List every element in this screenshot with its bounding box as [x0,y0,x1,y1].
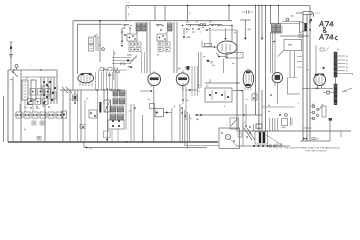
svg-text:1,5 V: 1,5 V [315,13,321,15]
svg-text:FOLLOW THE WIRING I-AND FOR TH: FOLLOW THE WIRING I-AND FOR THE TABLE MO… [285,147,341,150]
svg-text:FOR THE CONSOLE.: FOR THE CONSOLE. [306,150,328,152]
